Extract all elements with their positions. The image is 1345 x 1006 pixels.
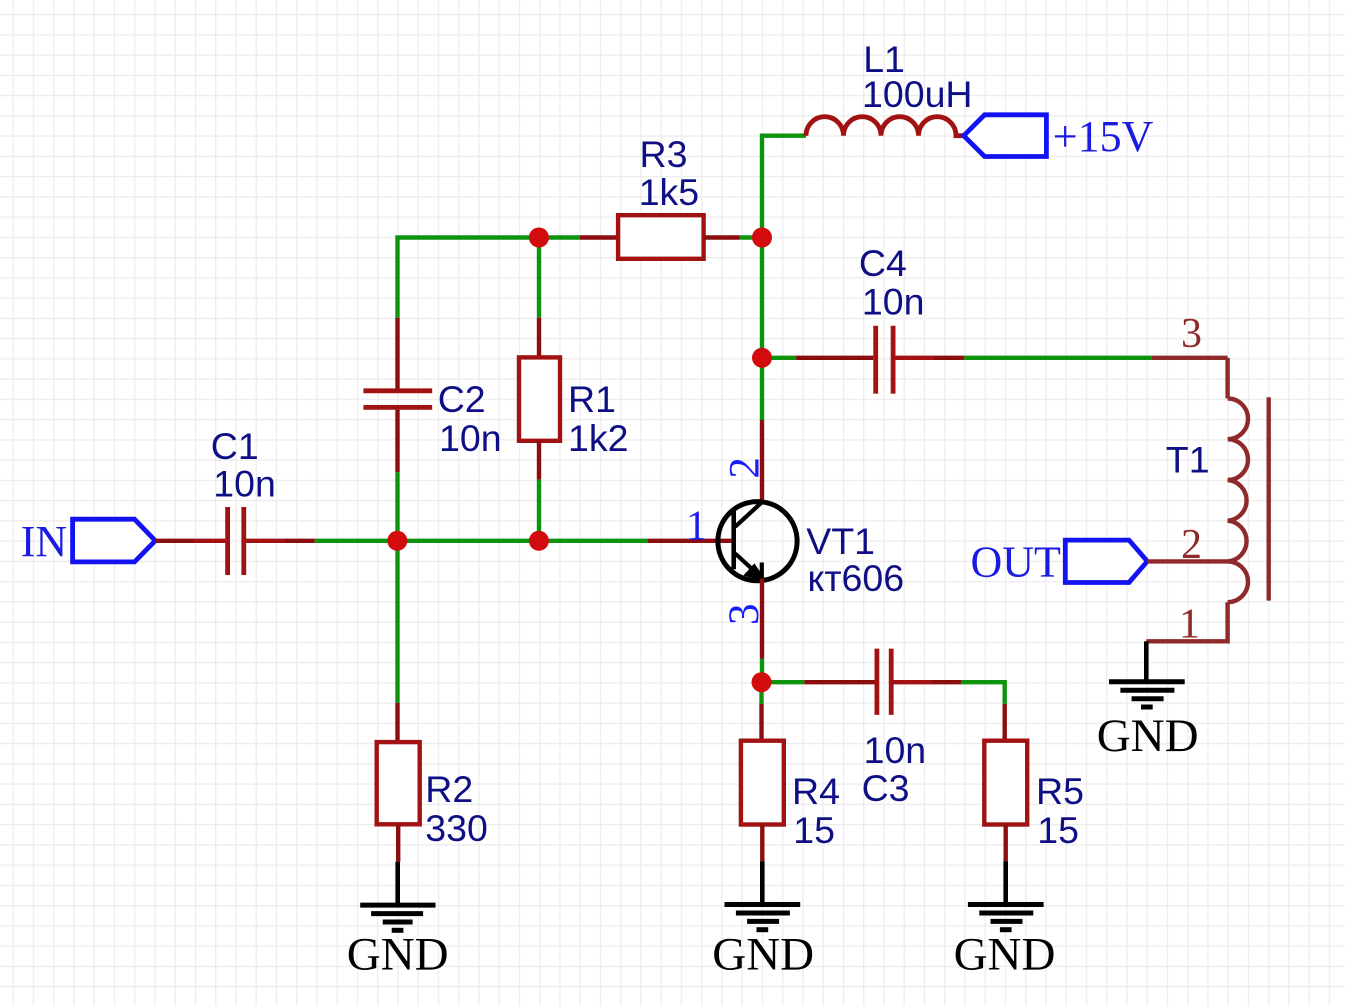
wire node C up and to L1	[762, 136, 806, 238]
wire C3 to R5	[932, 682, 1005, 741]
svg-text:15: 15	[793, 809, 835, 851]
capacitor C4	[859, 242, 934, 393]
svg-text:R1: R1	[568, 378, 616, 420]
svg-text:R4: R4	[792, 770, 840, 812]
resistor R5	[984, 741, 1084, 862]
svg-text:10n: 10n	[862, 280, 925, 322]
svg-text:100uH: 100uH	[862, 73, 973, 115]
capacitor C3	[862, 649, 932, 809]
resistor R3	[618, 133, 704, 259]
wire top-left corner down to C2	[398, 238, 539, 389]
node B junction	[529, 531, 549, 551]
svg-text:GND: GND	[1097, 710, 1199, 762]
port IN	[21, 517, 156, 566]
node C junction	[752, 228, 772, 248]
svg-text:GND: GND	[712, 929, 814, 981]
node A junction	[387, 531, 407, 551]
svg-text:C2: C2	[438, 378, 486, 420]
wire node B to VT1 base	[539, 539, 732, 543]
wire C2 to node A	[395, 410, 399, 541]
wire node B2 to R3	[539, 235, 618, 239]
svg-text:GND: GND	[954, 929, 1056, 981]
wire node A down to R2	[395, 541, 399, 742]
svg-text:1k5: 1k5	[639, 171, 699, 213]
node D junction	[752, 348, 772, 368]
node B2 junction (top wire)	[529, 228, 549, 248]
svg-text:OUT: OUT	[971, 538, 1062, 587]
wire OUT to T1 pin 2	[1147, 559, 1227, 563]
svg-text:1: 1	[686, 503, 707, 549]
T1 core	[1266, 397, 1270, 600]
svg-text:R5: R5	[1036, 770, 1084, 812]
ground under T1	[1097, 641, 1199, 762]
resistor R4	[741, 741, 840, 862]
svg-text:GND: GND	[347, 929, 449, 981]
svg-text:15: 15	[1037, 809, 1079, 851]
wire VT1 emitter to node E	[760, 579, 764, 683]
inductor L1	[806, 38, 973, 136]
svg-text:R2: R2	[425, 768, 473, 810]
ground under R4	[712, 861, 814, 980]
ground under R5	[954, 861, 1056, 980]
wire node E to R4	[759, 682, 763, 741]
wire C4 to T1 pin 3	[934, 356, 1228, 360]
capacitor C1	[211, 425, 285, 575]
capacitor C2	[363, 378, 501, 459]
svg-text:кт606: кт606	[808, 557, 905, 599]
resistor R2	[377, 742, 488, 862]
svg-text:C3: C3	[862, 767, 910, 809]
port OUT	[971, 538, 1148, 587]
wire node B up to R1	[537, 238, 541, 358]
svg-text:VT1: VT1	[806, 520, 875, 562]
svg-text:10n: 10n	[864, 729, 927, 771]
wire node C to node D	[760, 238, 764, 358]
svg-text:2: 2	[722, 457, 769, 479]
svg-text:T1: T1	[1166, 439, 1210, 481]
svg-text:3: 3	[1181, 311, 1202, 357]
wire R3 to node C	[704, 235, 762, 239]
wire R1 to node B	[537, 441, 541, 541]
wire node D to VT1 collector	[760, 358, 764, 503]
svg-text:R3: R3	[640, 133, 688, 175]
transformer T1	[1146, 311, 1268, 648]
power port +15V	[964, 112, 1154, 161]
svg-text:1k2: 1k2	[568, 417, 628, 459]
wire IN to C1	[155, 539, 225, 543]
wire node A to node B	[397, 539, 539, 543]
svg-text:1: 1	[1179, 601, 1200, 647]
resistor R1	[519, 357, 628, 459]
svg-text:C4: C4	[859, 242, 907, 284]
svg-text:C1: C1	[211, 425, 259, 467]
transistor VT1	[686, 457, 904, 625]
svg-text:10n: 10n	[439, 417, 502, 459]
wire node E to C3	[762, 680, 875, 684]
node E junction	[752, 672, 772, 692]
svg-text:+15V: +15V	[1053, 112, 1154, 161]
wire node D to C4	[762, 356, 873, 360]
ground under R2	[347, 862, 449, 981]
svg-text:330: 330	[425, 807, 488, 849]
svg-text:10n: 10n	[213, 463, 276, 505]
wire C1 to node A	[285, 539, 397, 543]
svg-text:IN: IN	[21, 517, 67, 566]
